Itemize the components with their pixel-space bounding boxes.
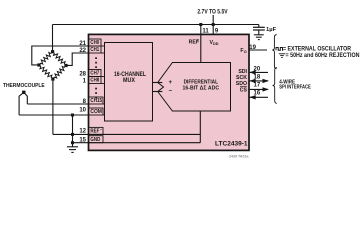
supply rail wire: [53, 24, 259, 26]
pin 21 CH0: [79, 39, 104, 47]
bridge resistor bottom-left arm: [39, 65, 53, 79]
node rail-REF+ junction: [199, 23, 202, 26]
svg-text:LTC2439-1: LTC2439-1: [215, 141, 248, 148]
svg-text:+: +: [168, 80, 172, 86]
pin 15 GND: [79, 136, 103, 144]
svg-text:9: 9: [215, 28, 219, 34]
pin 19 Fo: [240, 45, 267, 54]
4-wire SPI interface text: [279, 79, 311, 90]
wire bridge bottom to REF- line: [52, 79, 54, 134]
wire REF- from bridge to ADC: [53, 133, 200, 135]
node bridge bottom: [51, 77, 54, 80]
ground symbol at C1: [254, 35, 264, 40]
VDD supply drop wire pin 9: [212, 15, 214, 34]
thermocouple junction: [19, 91, 27, 115]
svg-text:SPI INTERFACE: SPI INTERFACE: [279, 84, 311, 90]
svg-text:11: 11: [202, 28, 209, 34]
svg-text:28: 28: [79, 71, 86, 77]
pin 10 COM: [79, 108, 104, 116]
bridge resistor bottom-right arm: [53, 66, 66, 80]
16-channel MUX block: [105, 43, 153, 122]
svg-text:CH1: CH1: [90, 47, 99, 53]
node COM-ground bus junction: [71, 114, 74, 117]
channel ellipsis dots upper: [95, 57, 97, 68]
ground bus vertical wire: [72, 115, 74, 143]
capacitor C1 1uF: [253, 25, 277, 35]
wire thermocouple to COM: [19, 114, 88, 116]
pin 9 VDD top: [210, 28, 219, 46]
50/60Hz ground glyph: [279, 54, 285, 58]
svg-text:1µF: 1µF: [266, 27, 277, 33]
pin 18 SCK: [236, 75, 269, 84]
pin 12 REF-: [79, 127, 103, 134]
node bridge right: [64, 64, 67, 67]
wire MUX to ADC - input: [153, 91, 163, 93]
svg-text:2439 TA01a: 2439 TA01a: [229, 155, 250, 159]
wire rail to bridge top: [52, 25, 54, 52]
brace SPI interface: [273, 67, 277, 103]
node REF- ground bus junction: [71, 133, 74, 136]
svg-text:2.7V TO 5.5V: 2.7V TO 5.5V: [197, 9, 227, 15]
svg-text:GND: GND: [90, 137, 100, 143]
svg-text:CS: CS: [240, 87, 248, 93]
svg-text:CH7: CH7: [90, 71, 99, 77]
pin 8 CH15: [83, 97, 105, 105]
brace Fo options: [272, 35, 276, 69]
pin 16 CS: [240, 87, 268, 100]
pin 20 SDI: [238, 67, 268, 76]
svg-text:17: 17: [254, 83, 261, 89]
svg-text:1: 1: [83, 78, 87, 84]
pin 1 CH8: [83, 77, 105, 85]
channel ellipsis dots lower: [95, 88, 97, 99]
svg-text:CH0: CH0: [90, 40, 99, 46]
ground symbol main: [67, 143, 78, 153]
pin 22 CH1: [79, 46, 104, 54]
svg-text:O: O: [244, 50, 247, 54]
svg-text:THERMOCOUPLE: THERMOCOUPLE: [3, 83, 45, 89]
pin 11 REF+ top: [189, 28, 210, 45]
svg-text:DD: DD: [213, 42, 219, 46]
node bridge left: [37, 63, 40, 66]
node rail-VDD junction: [212, 23, 215, 26]
bridge resistor top-right arm: [53, 52, 66, 66]
wire CH0 to bridge left: [32, 46, 89, 65]
svg-text:MUX: MUX: [123, 77, 136, 84]
node bridge top: [51, 50, 54, 53]
node GND ground bus junction: [71, 141, 74, 144]
chip U1 LTC2439-1 body: [89, 34, 250, 150]
pin 28 CH7: [79, 70, 104, 78]
svg-text:CH8: CH8: [90, 78, 99, 84]
wire MUX to ADC + input: [153, 82, 163, 84]
svg-text:16-BIT ΔΣ ADC: 16-BIT ΔΣ ADC: [183, 85, 220, 91]
svg-text:CH15: CH15: [90, 98, 102, 104]
internal REF+ wire from pin 11 to ADC top: [200, 25, 202, 63]
bridge resistor top-left arm: [39, 52, 53, 65]
wire GND pin to internal node: [73, 142, 201, 144]
svg-text:12: 12: [79, 129, 86, 135]
svg-text:10: 10: [79, 108, 86, 114]
svg-text:SDO: SDO: [236, 81, 247, 87]
external oscillator squarewave glyph: [276, 48, 283, 51]
internal REF-/GND wire to ADC bottom: [199, 111, 201, 143]
wire thermocouple to CH15: [27, 103, 88, 105]
ADC block: differential 16-bit delta-sigma ADC: [158, 63, 231, 112]
svg-text:REF: REF: [90, 129, 99, 135]
svg-text:= 50Hz and 60Hz REJECTION: = 50Hz and 60Hz REJECTION: [286, 52, 360, 59]
wire CH1 to bridge right: [66, 53, 89, 65]
svg-text:−: −: [168, 88, 172, 94]
svg-text:COM: COM: [90, 109, 102, 115]
pin 17 SDO: [236, 81, 269, 91]
